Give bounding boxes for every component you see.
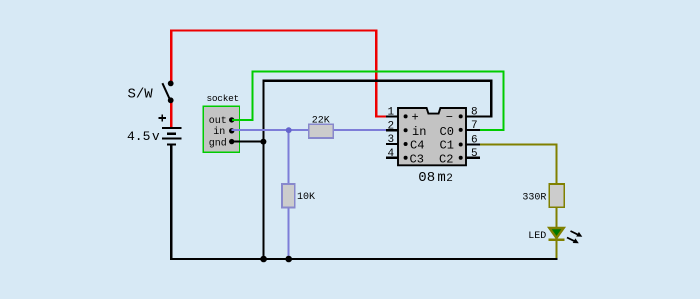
svg-text:5: 5 xyxy=(471,148,478,160)
LED emission arrow 1 xyxy=(571,231,583,237)
svg-text:2: 2 xyxy=(388,120,395,132)
svg-text:−: − xyxy=(446,111,453,125)
svg-text:6: 6 xyxy=(471,135,478,147)
wire red battery+ to switch bottom xyxy=(170,102,172,128)
battery + sign xyxy=(159,114,166,121)
svg-text:7: 7 xyxy=(471,120,478,132)
LED triangle xyxy=(549,228,563,238)
resistor 330R xyxy=(522,184,564,207)
socket U-socket xyxy=(207,93,239,149)
wire olive net: IC pin6 to 330R/LED xyxy=(480,143,557,258)
wire red short horizontal into pin1 stub xyxy=(375,115,386,117)
svg-text:C3: C3 xyxy=(410,152,424,166)
LED emission arrow 2 xyxy=(567,238,579,244)
wire green down xyxy=(502,70,504,130)
svg-text:gnd: gnd xyxy=(209,137,227,149)
battery plate short xyxy=(167,133,176,135)
wire green top horizontal xyxy=(251,70,503,72)
wire green from out pin xyxy=(232,119,252,121)
wire black vertical down to bottom rail xyxy=(263,80,265,259)
op IC U1 08M2 body xyxy=(398,108,466,165)
pin 3 stub xyxy=(386,143,398,145)
wire black up from pin8 xyxy=(490,81,492,118)
wire blue net: socket.in / 22K / pin2 / 10K xyxy=(232,130,386,258)
battery 4.5v xyxy=(162,127,182,146)
wire green into pin7 xyxy=(480,129,505,131)
wire olive down through 330R and LED xyxy=(555,143,557,258)
wire black ground net: IC pin8 loop to socket gnd and bottom rail xyxy=(170,80,557,260)
wire black top horizontal xyxy=(264,80,493,82)
battery plate long xyxy=(162,138,182,140)
node blue junction at 22K tap xyxy=(286,127,292,133)
wire red net: battery+ to switch to IC pin1 xyxy=(170,29,386,127)
svg-text:330R: 330R xyxy=(522,192,546,203)
resistor 22K xyxy=(309,116,333,138)
IC inner pin dots xyxy=(404,114,463,159)
wire blue socket.in to pin2 xyxy=(232,129,386,131)
svg-text:22K: 22K xyxy=(312,116,330,127)
svg-text:LED: LED xyxy=(528,231,546,242)
svg-text:in: in xyxy=(412,125,426,139)
resistor 10K xyxy=(282,184,315,208)
wire green net: socket.out to IC pin7 xyxy=(232,70,505,130)
svg-text:4: 4 xyxy=(388,148,395,160)
IC pin numbers xyxy=(388,107,478,160)
battery plate short bottom xyxy=(167,143,176,145)
node black junction gnd-net on bottom rail xyxy=(260,256,267,263)
svg-text:1: 1 xyxy=(388,107,395,119)
svg-text:C1: C1 xyxy=(440,139,454,153)
svg-text:socket: socket xyxy=(207,93,239,104)
wire black battery- down xyxy=(170,145,172,260)
node black junction 10K on bottom rail xyxy=(285,256,292,263)
svg-text:10K: 10K xyxy=(297,192,315,203)
svg-text:4.5v: 4.5v xyxy=(127,129,160,144)
socket pin dot gnd xyxy=(229,139,234,144)
wire black bottom rail xyxy=(170,258,557,260)
pin 2 stub xyxy=(386,129,398,131)
socket pin dot in xyxy=(229,128,234,133)
pin 6 stub xyxy=(466,143,480,145)
LED cathode bar xyxy=(548,239,564,241)
svg-text:C2: C2 xyxy=(439,152,453,166)
wire red switch top up xyxy=(170,30,172,84)
switch S/W xyxy=(128,81,174,104)
socket body xyxy=(203,106,239,152)
svg-text:3: 3 xyxy=(388,134,395,146)
pin 1 stub xyxy=(386,115,398,117)
wire olive pin6 to corner xyxy=(480,143,557,145)
wire red down to pin1 xyxy=(375,29,377,116)
IC pin stubs left xyxy=(386,116,480,157)
svg-text:out: out xyxy=(209,116,227,127)
svg-text:C4: C4 xyxy=(410,139,424,153)
socket pin dot out xyxy=(229,117,234,122)
pin 4 stub xyxy=(386,157,398,159)
svg-text:+: + xyxy=(412,111,419,125)
svg-text:in: in xyxy=(213,126,225,138)
switch lever xyxy=(162,83,170,100)
battery plate long top xyxy=(162,127,182,129)
LED D1 xyxy=(528,228,582,243)
wire green up xyxy=(251,71,253,121)
svg-text:8: 8 xyxy=(471,107,478,119)
node black junction at socket gnd tee xyxy=(260,139,266,145)
wire red top horizontal xyxy=(170,29,376,31)
wire blue down through 10K to rail xyxy=(288,130,290,258)
svg-text:C0: C0 xyxy=(440,125,454,139)
wire black pin8 to corner xyxy=(466,115,491,117)
pin 7 stub xyxy=(466,129,480,131)
wire black socket gnd to junction xyxy=(232,141,264,143)
svg-text:S/W: S/W xyxy=(128,87,154,103)
IC inner labels xyxy=(410,111,454,167)
pin 8 stub xyxy=(466,115,480,117)
pin 5 stub xyxy=(466,157,480,159)
